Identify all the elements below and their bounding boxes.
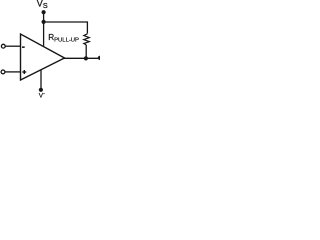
wire VS supply <box>43 12 45 46</box>
node junction output <box>84 56 88 60</box>
wire output <box>64 57 100 59</box>
plus input sign <box>22 71 26 72</box>
terminal V- dot <box>39 88 43 92</box>
resistor R_PULL-UP <box>84 34 90 45</box>
terminal VS dot <box>42 10 46 14</box>
wire resistor to output node <box>85 45 87 59</box>
wire inverting input <box>5 45 20 47</box>
op-amp U1 <box>21 34 65 80</box>
wire non-inverting input <box>5 71 21 73</box>
terminal IN- <box>1 44 5 48</box>
terminal OUT <box>98 56 102 60</box>
svg-text:RPULL-UP: RPULL-UP <box>48 33 79 44</box>
node junction VS <box>42 20 46 24</box>
svg-text:V-: V- <box>39 91 45 100</box>
wire VS to resistor <box>44 22 88 34</box>
wire V- supply <box>40 70 42 89</box>
terminal IN+ <box>1 70 5 74</box>
minus input sign <box>22 46 25 48</box>
svg-text:VS: VS <box>37 0 48 10</box>
